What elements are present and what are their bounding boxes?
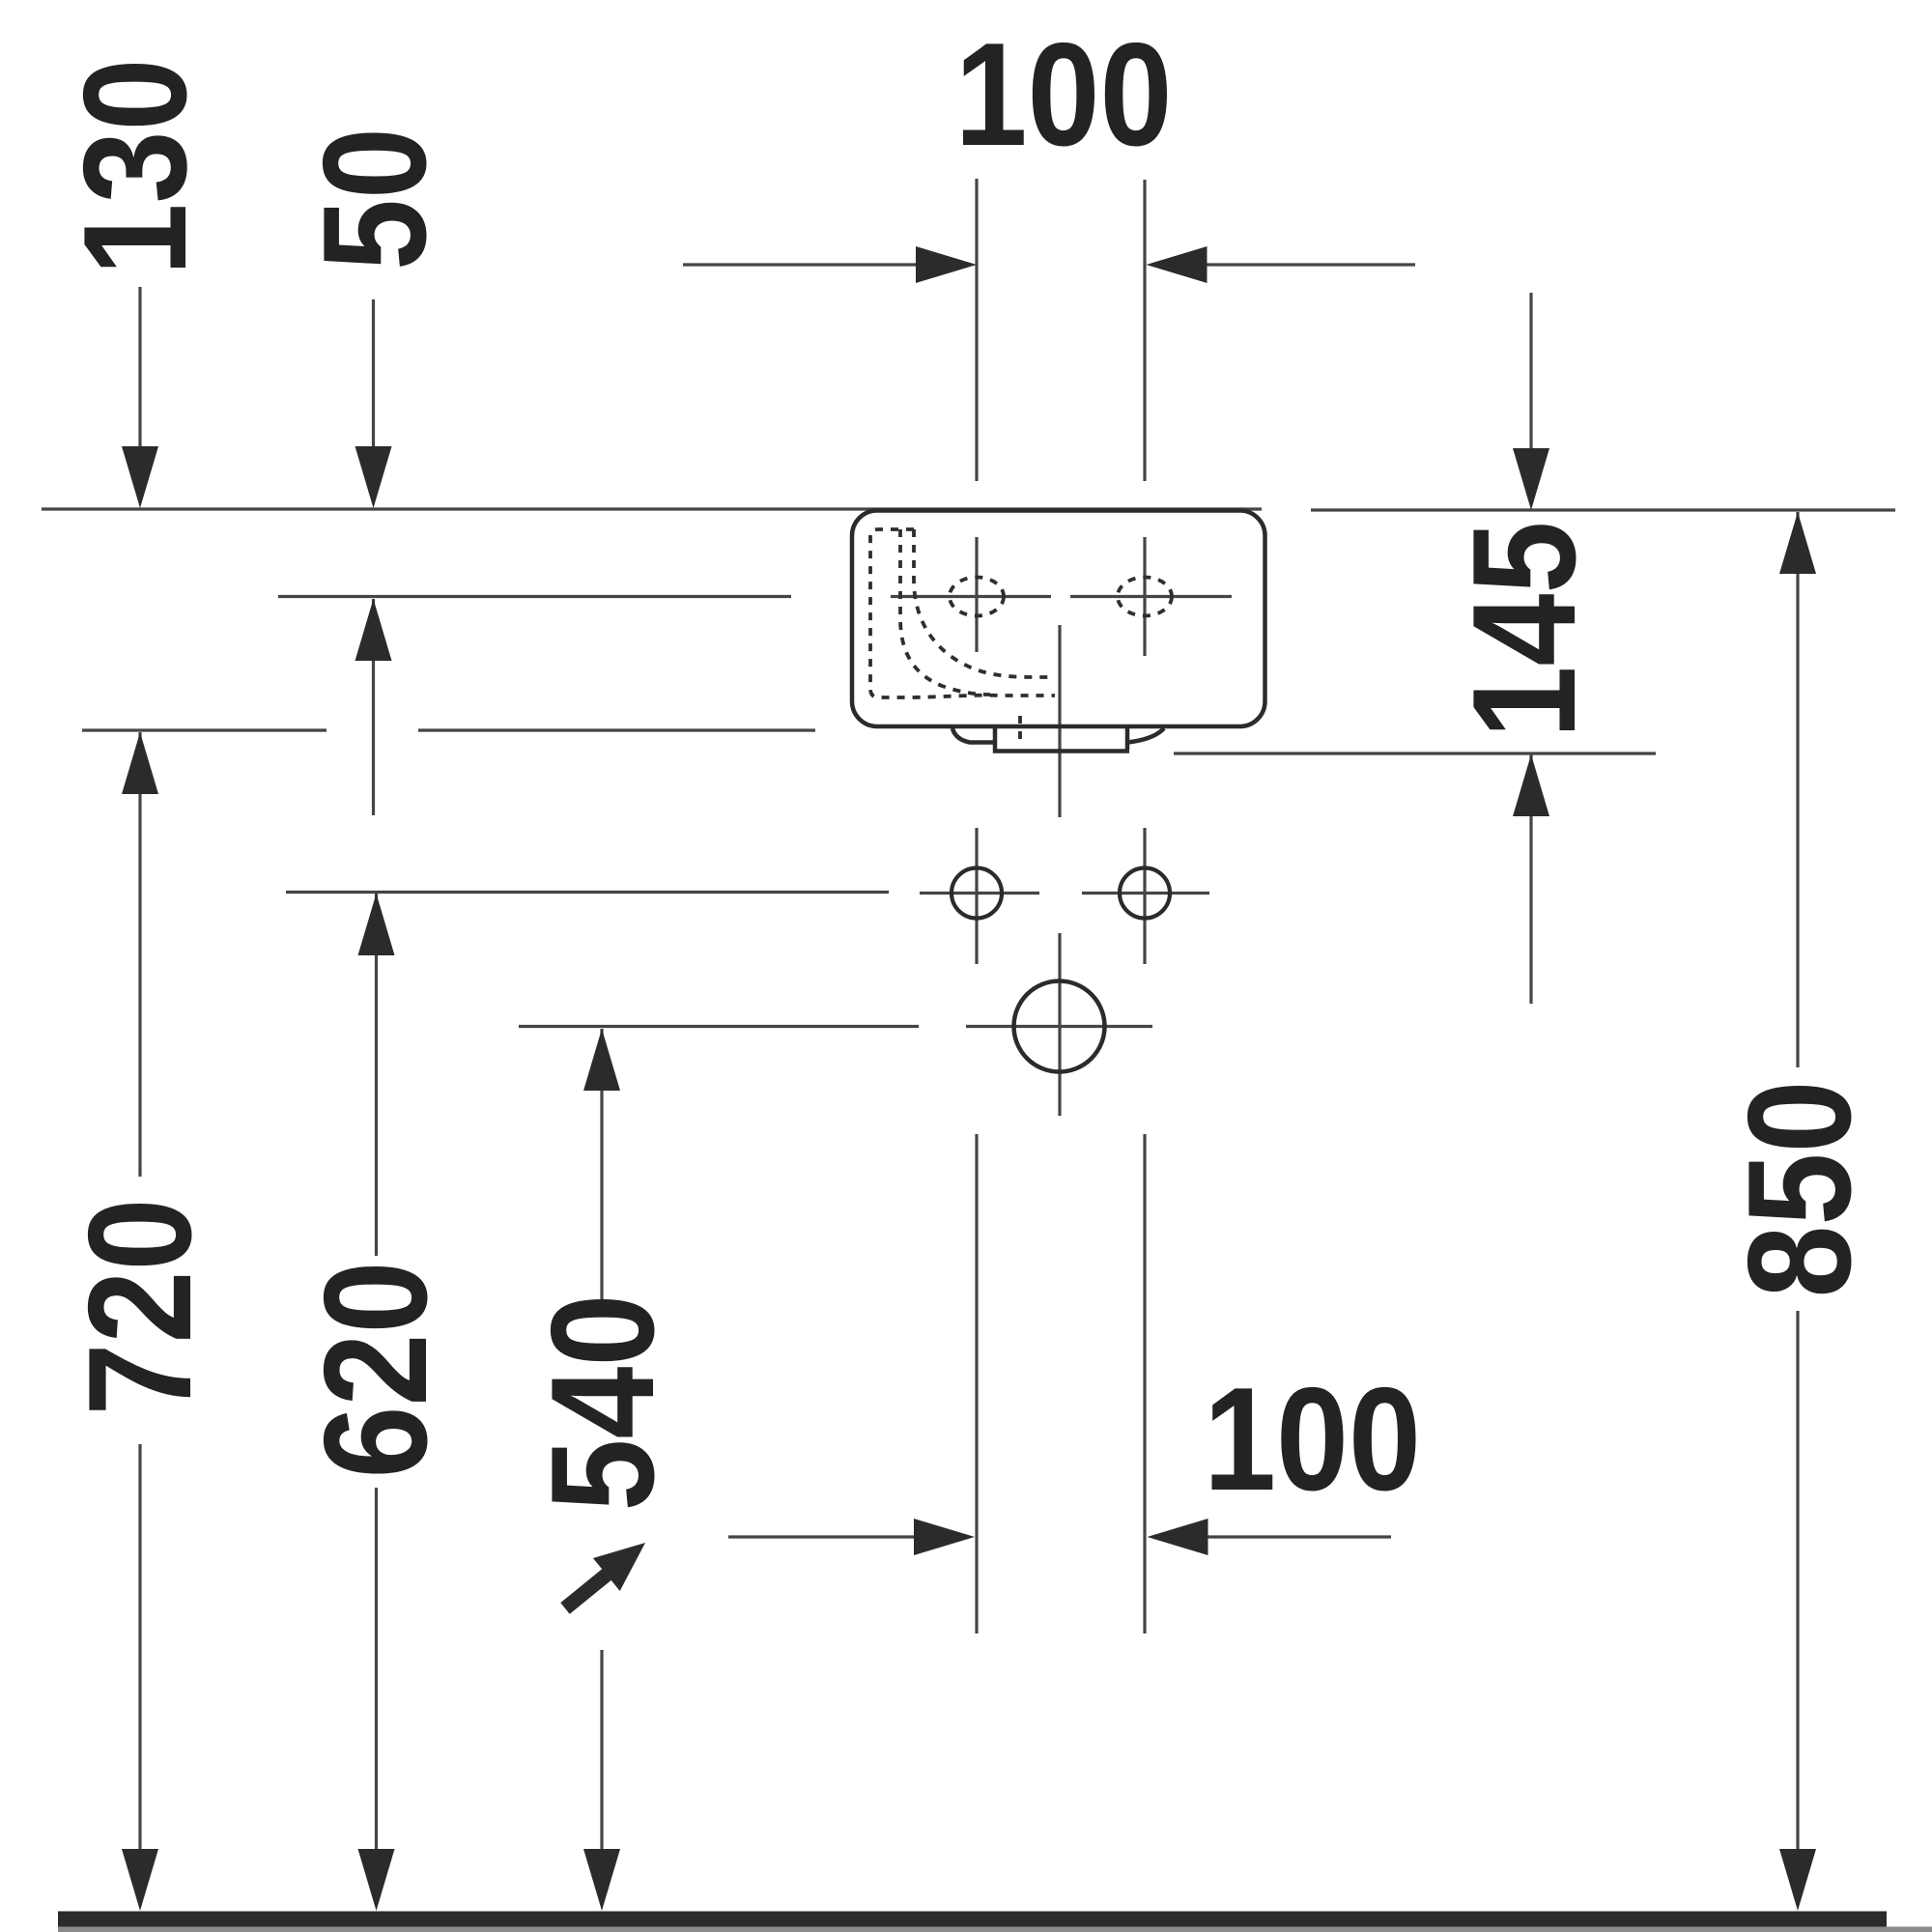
bottom dimension 100 line right part	[1153, 1535, 1391, 1538]
dashed left faucet hole ellipse	[950, 578, 1004, 616]
drain hole circle	[1014, 981, 1105, 1072]
top dimension 100 line left part	[683, 263, 970, 266]
arrow top 100 pointing left	[1147, 246, 1207, 283]
basin outline rounded rectangle	[852, 511, 1265, 727]
left fillet arc	[952, 728, 995, 743]
arrow 540 down at floor	[583, 1849, 620, 1911]
arrow bottom 100 pointing left	[1148, 1519, 1208, 1555]
dashed inner bowl outer contour	[870, 529, 1055, 697]
dashed siphon hidden line	[1018, 716, 1022, 746]
arrow 620 up	[358, 894, 395, 955]
drain crosshair horizontal	[966, 1025, 1152, 1028]
svg-text:100: 100	[955, 13, 1173, 177]
svg-text:145: 145	[1442, 522, 1606, 739]
dashed inner bowl channel right wall curve	[914, 529, 1055, 677]
arrow top 100 pointing right	[916, 246, 977, 283]
bottom dimension 100 line left part	[728, 1535, 968, 1538]
arrow 145 down	[1513, 448, 1549, 510]
left fixing hole circle	[952, 868, 1002, 919]
top extension line left hole	[975, 179, 978, 481]
basin bottom extension line	[82, 728, 815, 731]
drain axis extension line	[519, 1025, 919, 1028]
dimension line 720	[138, 732, 141, 1850]
arrow 50 down	[355, 446, 392, 508]
right fixing hole circle	[1120, 868, 1170, 919]
siphon tab left edge	[993, 728, 998, 750]
floor line	[58, 1912, 1887, 1927]
fixing holes axis extension line	[286, 891, 889, 894]
top extension line right hole	[1143, 180, 1146, 481]
left fixing hole crosshair	[920, 828, 1039, 964]
right fillet arc	[1127, 728, 1164, 743]
dimension line 620	[375, 894, 378, 1850]
bottom extension line right hole	[1143, 1134, 1146, 1634]
siphon tab bottom	[993, 749, 1129, 753]
arrow 145 up	[1513, 754, 1549, 816]
right faucet hole crosshair	[1070, 537, 1232, 656]
floor shadow gray line	[58, 1927, 1932, 1932]
right fixing hole crosshair	[1082, 828, 1209, 964]
arrow 720 up	[122, 732, 158, 794]
svg-text:720: 720	[58, 1199, 222, 1416]
arrow 850 down at floor	[1779, 1849, 1816, 1911]
dimension line 50	[372, 299, 375, 815]
arrow bottom 100 pointing right	[914, 1519, 975, 1555]
dashed inner bowl channel left wall curve	[900, 529, 990, 695]
svg-text:50: 50	[293, 128, 457, 270]
dimension line 540	[600, 1029, 603, 1850]
svg-text:100: 100	[1204, 1357, 1421, 1521]
faucet axis extension line left	[278, 595, 791, 598]
svg-text:620: 620	[294, 1262, 458, 1479]
dimension line 850	[1796, 512, 1799, 1850]
wall reference line right segment	[1311, 508, 1895, 511]
arrow 620 down at floor	[358, 1849, 395, 1911]
dashed right faucet hole ellipse	[1118, 578, 1172, 616]
svg-text:130: 130	[53, 59, 217, 276]
dimension line 145	[1529, 293, 1532, 1004]
diagonal leader arrow	[593, 1543, 645, 1591]
arrow 50 up	[355, 599, 392, 661]
arrow 850 up	[1779, 512, 1816, 574]
dimension line 130	[138, 287, 141, 446]
arrow 720 down at floor	[122, 1849, 158, 1911]
svg-text:540: 540	[521, 1294, 685, 1512]
arrow 540 up	[583, 1029, 620, 1091]
svg-text:850: 850	[1718, 1081, 1882, 1298]
left faucet hole crosshair	[891, 537, 1051, 652]
top dimension 100 line right part	[1154, 263, 1415, 266]
siphon tab right edge	[1125, 728, 1130, 750]
wall reference line left segment	[42, 507, 1262, 510]
bottom extension line left hole	[975, 1134, 978, 1634]
lower reference line 145	[1174, 752, 1656, 754]
diagonal leader arrow shaft	[565, 1575, 607, 1608]
arrow 130 down	[122, 446, 158, 508]
center axis line	[1058, 625, 1061, 1116]
